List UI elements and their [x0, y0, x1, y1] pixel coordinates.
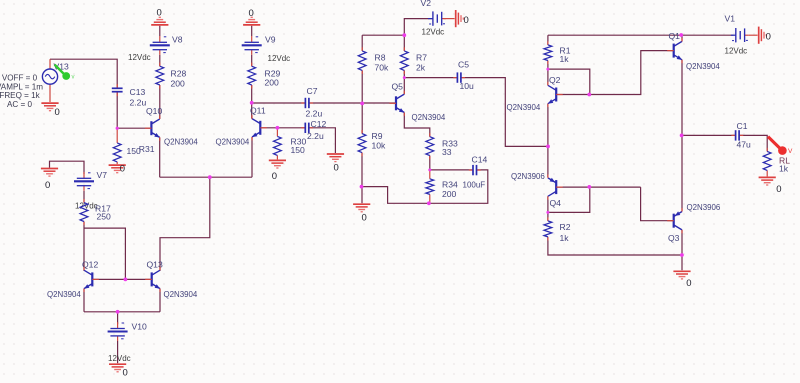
svg-text:0: 0: [272, 171, 277, 182]
svg-text:0: 0: [120, 163, 125, 174]
wire output rail Q1-Q3 emitters: [681, 60, 683, 212]
svg-text:V1: V1: [725, 13, 736, 23]
wire Q2 emitter chain: [547, 104, 549, 177]
wire V9 top pin: [251, 26, 253, 36]
wire Q10 emitter down: [159, 137, 161, 177]
resistor RL (load): [763, 148, 771, 177]
voltage source V13 (VSIN): [42, 59, 57, 102]
wire output tap to C1: [682, 134, 735, 136]
wire V1 to ground: [749, 34, 758, 36]
DC source V8 12Vdc: [150, 36, 170, 55]
DC source V9 12Vdc: [242, 36, 262, 55]
resistor R34: [426, 170, 434, 203]
junction node output tap: [680, 134, 684, 138]
wire Q11 collector to C7: [252, 102, 305, 104]
junction node Q4 base: [587, 185, 591, 189]
wire ground to V7: [50, 161, 85, 174]
svg-text:C5: C5: [458, 60, 469, 70]
wire V9 to R29: [251, 55, 253, 66]
capacitor C13: [112, 84, 123, 96]
svg-text:C13: C13: [130, 87, 146, 97]
svg-text:200: 200: [442, 189, 457, 199]
svg-text:V8: V8: [172, 34, 183, 44]
svg-text:V7: V7: [97, 170, 108, 180]
wire node to C14: [430, 169, 473, 171]
wire Q4 base to Q3 base: [641, 187, 674, 221]
svg-text:2k: 2k: [416, 62, 426, 72]
svg-text:v: v: [72, 75, 75, 81]
svg-text:C1: C1: [737, 121, 748, 131]
svg-text:Q2N3904: Q2N3904: [164, 137, 198, 146]
svg-text:Q2N3904: Q2N3904: [47, 290, 81, 299]
wire R9 to ground node: [361, 153, 363, 204]
svg-text:0: 0: [464, 15, 469, 26]
wire Q2 base to Q1 base: [556, 51, 673, 95]
voltage marker (red probe) on output: [768, 137, 793, 155]
ground 0 below Q3: [673, 271, 690, 279]
svg-text:0: 0: [45, 180, 50, 191]
svg-text:Q2: Q2: [549, 75, 561, 85]
wire base node to C12: [277, 127, 304, 129]
svg-text:12Vdc: 12Vdc: [422, 27, 445, 36]
wire V2 to ground: [444, 18, 455, 20]
svg-text:150: 150: [291, 145, 306, 155]
wire Q11 base node: [260, 127, 277, 129]
DC source V10 12Vdc: [108, 322, 128, 341]
wire R1 to Q2 collector: [547, 61, 549, 86]
capacitor C5: [453, 72, 465, 82]
ground 0 below C12: [327, 154, 344, 162]
junction node mirror emitters: [116, 310, 120, 314]
svg-text:VOFF = 0: VOFF = 0: [2, 74, 38, 83]
capacitor C1: [731, 130, 743, 140]
wire Q12 emitter down: [83, 289, 85, 312]
ground 0 below R9: [353, 204, 370, 212]
svg-text:12Vdc: 12Vdc: [268, 54, 291, 63]
svg-text:Q2N3904: Q2N3904: [507, 103, 541, 112]
svg-text:Q2N3906: Q2N3906: [687, 203, 721, 212]
svg-text:Q3: Q3: [668, 233, 680, 243]
resistor R7: [400, 47, 408, 74]
transistor Q13 (NPN): [145, 267, 160, 292]
wire R33 to R34 node: [429, 156, 431, 170]
svg-text:1k: 1k: [560, 54, 570, 64]
junction node Q11 base: [276, 126, 280, 130]
svg-text:10u: 10u: [460, 81, 475, 91]
DC source V1: [731, 28, 749, 42]
wire V2 plus wire: [404, 19, 433, 36]
junction node C5 tap: [403, 76, 406, 79]
wire Q4 base-collector tie: [548, 187, 590, 212]
svg-text:2.2u: 2.2u: [130, 97, 147, 107]
resistor R28: [156, 63, 164, 89]
wire R28 to Q10 collector: [159, 85, 161, 119]
DC source V7 12Vdc: [74, 172, 94, 191]
svg-text:R9: R9: [372, 131, 383, 141]
wire R29 to Q11 collector node: [251, 85, 253, 119]
junction node C5 injection: [546, 145, 550, 149]
wire differential pair tail rail: [160, 176, 252, 178]
svg-text:Q4: Q4: [550, 198, 562, 208]
wire Q4 collector to R2: [547, 196, 549, 221]
junction node Q2 base: [587, 93, 591, 97]
wire Q2 collector-base tie: [548, 69, 590, 94]
svg-text:Q5: Q5: [392, 81, 404, 91]
wire R7 to Q5 collector: [403, 70, 405, 94]
svg-text:12Vdc: 12Vdc: [108, 354, 131, 363]
svg-text:0: 0: [776, 184, 781, 195]
svg-text:Q1: Q1: [669, 31, 681, 41]
resistor R9: [358, 130, 366, 156]
svg-text:R31: R31: [139, 144, 155, 154]
transistor Q2 (NPN mirrored): [548, 82, 563, 107]
voltage marker (green probe) on V13: [55, 65, 75, 81]
svg-text:0: 0: [686, 278, 691, 289]
junction node R9 ground rail: [360, 185, 364, 189]
wire tail to current mirror: [160, 177, 210, 271]
ground 0 above V8 (inverted): [151, 17, 168, 25]
svg-text:Q2N3904: Q2N3904: [164, 290, 198, 299]
junction node R34 ground rail: [427, 201, 431, 205]
svg-text:VAMPL = 1m: VAMPL = 1m: [0, 82, 43, 91]
svg-text:12Vdc: 12Vdc: [725, 46, 748, 55]
svg-text:Q2N3904: Q2N3904: [686, 62, 720, 71]
transistor Q12 (NPN mirrored): [84, 267, 99, 292]
svg-text:Q2N3906: Q2N3906: [511, 172, 545, 181]
svg-text:R8: R8: [375, 52, 386, 62]
svg-text:33: 33: [442, 147, 452, 157]
svg-text:1k: 1k: [560, 233, 570, 243]
wire V8 top pin: [159, 26, 161, 36]
resistor R1: [544, 41, 552, 64]
label source attributes: [0, 74, 43, 109]
svg-text:200: 200: [171, 79, 186, 89]
transistor Q5 (NPN): [390, 91, 405, 116]
svg-text:Q11: Q11: [250, 106, 266, 116]
transistor Q4 (PNP mirrored): [548, 175, 563, 200]
svg-text:10k: 10k: [372, 141, 387, 151]
transistor Q3 (PNP): [667, 208, 682, 233]
capacitor C14: [469, 165, 481, 175]
wire rail to V10: [117, 312, 119, 324]
svg-text:250: 250: [97, 212, 112, 222]
wire R7 top lead: [403, 35, 405, 51]
ground 0 above V9 (inverted): [243, 17, 260, 25]
svg-text:2.2u: 2.2u: [306, 108, 323, 118]
wire ground rail to R34/C14: [362, 170, 488, 203]
junction node C13/R31/base: [116, 127, 119, 130]
svg-text:R2: R2: [560, 222, 571, 232]
svg-text:0: 0: [55, 107, 60, 118]
svg-text:C14: C14: [472, 155, 488, 165]
junction node mirror bases: [124, 278, 128, 282]
wire base wire to Q10: [117, 127, 152, 129]
wire C7 to Q5 base: [310, 102, 396, 104]
wire Q1 collector to rail: [681, 35, 683, 41]
wire R8 to base node: [361, 70, 363, 103]
svg-text:2.2u: 2.2u: [307, 131, 324, 141]
wire V8 to R28: [159, 55, 161, 66]
junction node Q4 collector tie: [546, 211, 549, 214]
svg-text:0: 0: [766, 31, 771, 42]
wire V7 to R17: [83, 191, 85, 203]
wire C5 to bias chain: [462, 78, 548, 147]
capacitor C7: [301, 98, 313, 108]
svg-text:0: 0: [334, 163, 339, 174]
svg-text:0: 0: [362, 213, 367, 224]
ground 0 below RL: [759, 177, 776, 185]
wire R1 top lead: [547, 35, 549, 45]
ground 0 right of V1: [759, 27, 767, 44]
svg-text:V9: V9: [265, 34, 276, 44]
wire R2 to Q3 collector rail: [548, 237, 682, 255]
svg-text:R7: R7: [416, 52, 427, 62]
wire R17 to mirror bases: [84, 228, 125, 279]
svg-text:V10: V10: [132, 322, 148, 332]
junction node tail: [208, 175, 212, 179]
svg-text:V: V: [788, 148, 793, 155]
transistor Q10 (NPN): [145, 116, 160, 141]
junction node R33/R34/C14: [428, 168, 431, 171]
resistor R2: [544, 217, 552, 240]
svg-text:FREQ = 1k: FREQ = 1k: [0, 91, 41, 100]
junction node Q11 collector: [250, 101, 254, 105]
junction node Q5 base bias: [360, 102, 364, 106]
wire Q5 emitter to R33: [404, 113, 430, 137]
svg-text:1k: 1k: [779, 163, 789, 173]
svg-text:Q2N3904: Q2N3904: [216, 137, 250, 146]
svg-text:200: 200: [265, 77, 280, 87]
svg-text:AC = 0: AC = 0: [7, 100, 32, 109]
svg-text:100uF: 100uF: [463, 181, 486, 190]
wire C13 to Q10 base node: [116, 92, 118, 128]
svg-text:12Vdc: 12Vdc: [128, 53, 151, 62]
svg-text:Q2N3904: Q2N3904: [412, 113, 446, 122]
resistor R31: [113, 128, 121, 164]
transistor Q11 (NPN mirrored): [252, 115, 267, 140]
svg-text:70k: 70k: [375, 62, 390, 72]
wire R8 top lead: [361, 35, 363, 51]
ground 0 left of V7: [41, 169, 58, 177]
junction node Q1 collector: [679, 33, 683, 37]
resistor R30: [274, 128, 282, 160]
resistor R17: [80, 199, 88, 225]
ground 0 below R31: [109, 165, 126, 173]
junction node V2 rail: [402, 33, 406, 37]
wire C12 to ground: [310, 128, 336, 153]
wire V1 positive rail: [548, 34, 734, 36]
svg-text:0: 0: [123, 368, 128, 378]
svg-text:C7: C7: [307, 86, 318, 96]
wire mirror base rail: [92, 278, 151, 280]
wire V13 top to C13: [50, 59, 117, 88]
capacitor C12: [301, 123, 313, 133]
ground 0 right of V2: [456, 10, 464, 27]
wire C1 to RL: [740, 135, 767, 151]
wire rail to R8: [362, 34, 404, 36]
wire R17 to Q12 collector: [83, 222, 85, 271]
ground 0 below V10: [109, 364, 126, 372]
resistor R8: [358, 47, 366, 74]
wire Q13 emitter down: [159, 289, 161, 312]
wire Q3 collector down: [681, 230, 683, 270]
svg-text:R28: R28: [171, 69, 187, 79]
ground 0 below R30: [269, 160, 286, 168]
svg-text:47u: 47u: [737, 139, 752, 149]
junction node Q3 collector/R2: [680, 253, 684, 257]
ground 0 below V13: [41, 103, 58, 111]
DC source V2 12Vdc: [428, 11, 446, 25]
wire Q4 base tie: [556, 186, 640, 188]
svg-text:V2: V2: [421, 0, 432, 8]
junction node R1/Q2 box: [546, 68, 549, 71]
transistor Q1 (NPN): [667, 38, 682, 63]
svg-text:Q10: Q10: [146, 106, 162, 116]
wire V10 to ground: [117, 341, 119, 363]
resistor R29: [248, 63, 256, 89]
wire Q11 emitter down: [251, 137, 253, 177]
wire bias node to R9: [361, 103, 363, 134]
svg-text:C12: C12: [311, 119, 327, 129]
resistor R33: [426, 133, 434, 159]
wire mirror emitter rail: [84, 311, 160, 313]
wire Q5 collector to C5: [404, 77, 456, 79]
